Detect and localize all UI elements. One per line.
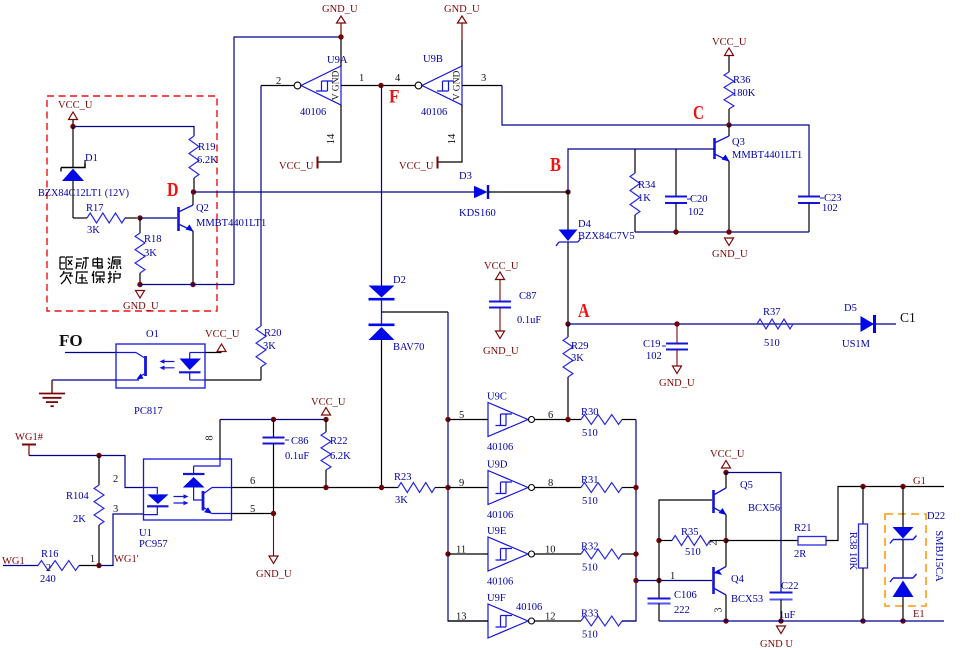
svg-text:6.2K: 6.2K (330, 451, 351, 462)
wire node F down to D2 (381, 86, 383, 286)
svg-text:510: 510 (685, 547, 701, 558)
wire U9B gnd pin (461, 23, 463, 66)
svg-text:3K: 3K (87, 225, 100, 236)
pin label 2 (U1) (113, 474, 118, 485)
label U9F (487, 593, 506, 604)
svg-text:Q2: Q2 (196, 203, 209, 214)
ground GND_U (driver) (760, 626, 793, 650)
wire U9B output to node F (381, 85, 415, 87)
TVS enclosure (D22) (885, 514, 926, 606)
pin label 8 (U9D out) (548, 478, 553, 489)
svg-text:VCC_U: VCC_U (311, 397, 346, 408)
wire U9E input (448, 553, 488, 555)
wire VCC to D1 (72, 127, 74, 168)
label R31 (581, 475, 599, 486)
svg-text:3K: 3K (395, 495, 408, 506)
undervoltage-protect dashed enclosure (47, 96, 217, 311)
svg-text:U1: U1 (139, 528, 152, 539)
value label 2K (73, 514, 86, 525)
wire D3 to node B (488, 191, 568, 193)
pin label 2 (R16) (46, 563, 51, 574)
svg-text:R23: R23 (394, 472, 412, 483)
value label BZX84C7V5 (578, 231, 635, 242)
wire node C to C23 (729, 125, 809, 196)
ground GND_U (Q3) (712, 238, 748, 260)
label R23 (394, 472, 412, 483)
wire U1 pin6 row (232, 487, 399, 489)
label Q2 (196, 203, 209, 214)
label D3 (459, 171, 472, 182)
U1 photodiode (183, 466, 205, 500)
inverter U9B (415, 66, 462, 105)
wire emitter/ground rail (659, 620, 944, 622)
svg-text:R18: R18 (144, 234, 162, 245)
svg-text:40106: 40106 (421, 107, 447, 118)
ground GND_U (U9B) (444, 4, 480, 23)
label D5 (844, 303, 857, 314)
svg-text:0.1uF: 0.1uF (517, 315, 541, 326)
svg-text:9: 9 (459, 478, 464, 489)
value label BAV70 (393, 342, 424, 353)
junction (rail/R23/U9D in) (445, 485, 450, 490)
svg-text:Q4: Q4 (731, 574, 745, 585)
svg-text:0.1uF: 0.1uF (285, 451, 309, 462)
value label 40106 (U9C) (487, 442, 513, 453)
svg-text:O1: O1 (146, 329, 159, 340)
wire U9C output (535, 419, 582, 421)
svg-text:3: 3 (714, 608, 725, 613)
value label 40106 (U9F) (516, 602, 542, 613)
wire U9F input (448, 620, 488, 622)
pin label 6 (U1) (250, 476, 255, 487)
value label 3K (R23) (395, 495, 408, 506)
ground GND_U (C87) (483, 331, 519, 357)
wire output rail (622, 420, 636, 622)
value label 0.1uF (C86) (285, 451, 309, 462)
svg-text:180K: 180K (732, 88, 756, 99)
svg-text:R19: R19 (198, 142, 216, 153)
label R104 (66, 491, 90, 502)
svg-text:U9B: U9B (423, 54, 443, 65)
label R34 (638, 180, 656, 191)
svg-text:510: 510 (764, 338, 780, 349)
value label 1uF (779, 610, 796, 621)
svg-text:A: A (578, 300, 590, 322)
svg-text:R31: R31 (581, 475, 599, 486)
svg-text:8: 8 (205, 435, 216, 440)
svg-text:10: 10 (545, 545, 556, 556)
svg-text:2K: 2K (73, 514, 86, 525)
label Q3 (732, 137, 745, 148)
svg-text:BCX56: BCX56 (748, 503, 780, 514)
label C20 (687, 194, 708, 205)
svg-text:VCC_U: VCC_U (205, 329, 240, 340)
value label 222 (674, 605, 690, 616)
capacitor C87 (489, 302, 511, 332)
svg-text:8: 8 (548, 478, 553, 489)
value label 510 (R31) (582, 496, 598, 507)
svg-text:C22: C22 (781, 581, 799, 592)
svg-text:40106: 40106 (516, 602, 542, 613)
label D1 (85, 153, 98, 164)
svg-text:V GND: V GND (332, 71, 342, 101)
inverter U9D (488, 471, 535, 505)
svg-text:VCC_U: VCC_U (484, 261, 519, 272)
value label 102 (C20) (688, 207, 704, 218)
value label MMBT4401LT1 (Q2) (196, 218, 266, 229)
wire Q5 base riser (659, 500, 712, 598)
svg-text:D3: D3 (459, 171, 472, 182)
wire D2 common tap (382, 299, 449, 420)
zener D1 (61, 160, 85, 181)
svg-text:U9D: U9D (487, 460, 508, 471)
label O1 (146, 329, 159, 340)
junction (D2 anode / pin6) (379, 485, 384, 490)
transistor Q4 (714, 541, 727, 622)
wire WG1' to pin3 (99, 514, 143, 566)
svg-text:VCC_U: VCC_U (710, 449, 745, 460)
svg-text:R36: R36 (733, 75, 751, 86)
svg-text:3: 3 (481, 73, 486, 84)
capacitor C22 (770, 593, 793, 622)
pin label 14 (U9B) (447, 133, 458, 144)
label R36 (733, 75, 751, 86)
svg-text:240: 240 (40, 574, 56, 585)
svg-text:R20: R20 (264, 328, 282, 339)
svg-text:FO: FO (59, 331, 83, 350)
junction (push-pull output) (723, 538, 728, 543)
U1 LED (144, 488, 169, 515)
resistor R36 (724, 72, 734, 125)
svg-text:510: 510 (582, 563, 598, 574)
label R29 (571, 341, 589, 352)
wire U9A out down to R20 (260, 86, 262, 327)
junction (D22 top) (900, 484, 905, 489)
wire VCC to R19 (73, 127, 194, 137)
svg-text:C20: C20 (690, 194, 708, 205)
svg-text:B: B (550, 154, 561, 176)
wire D1 to R17 (72, 181, 74, 218)
svg-text:R22: R22 (330, 436, 348, 447)
svg-text:MMBT4401LT1: MMBT4401LT1 (732, 150, 802, 161)
resistor R31 (581, 483, 636, 493)
svg-text:3K: 3K (144, 248, 157, 259)
svg-text:R32: R32 (581, 542, 599, 553)
U1 pin8 lead (194, 420, 220, 467)
label C23 (820, 193, 842, 204)
pin label 10 (U9E out) (545, 545, 556, 556)
junction (rail/U9C in) (445, 417, 450, 422)
pin label 2 (Q5 emitter) (709, 541, 720, 546)
pin label 1 (R16) (90, 554, 95, 565)
label R17 (86, 203, 104, 214)
junction (C22 bottom) (778, 618, 783, 623)
wire node A row (568, 323, 896, 325)
svg-text:12: 12 (545, 612, 556, 623)
wire U9A input (341, 85, 381, 87)
svg-text:WG1': WG1' (114, 554, 139, 565)
wire emitter rail (140, 284, 234, 286)
label R32 (581, 542, 599, 553)
value label BCX56 (748, 503, 780, 514)
svg-text:40106: 40106 (487, 442, 513, 453)
O1 light arrows (160, 359, 175, 370)
svg-text:3K: 3K (263, 341, 276, 352)
svg-text:VCC_U: VCC_U (58, 100, 93, 111)
wire U9F output (535, 620, 582, 622)
earth ground (FO return) (39, 380, 65, 406)
pin label 5 (U1) (250, 504, 255, 515)
wire U9A output (261, 85, 294, 87)
wire junction to Q2 base (140, 217, 177, 219)
pin label 2 (U9A out) (276, 76, 281, 87)
svg-text:D5: D5 (844, 303, 857, 314)
svg-text:Q5: Q5 (740, 480, 753, 491)
label C86 (285, 436, 309, 447)
svg-text:2R: 2R (794, 549, 806, 560)
resistor R20 (256, 326, 266, 380)
label D22 (927, 511, 945, 522)
wire U9C input (448, 419, 488, 421)
svg-text:14: 14 (447, 133, 458, 144)
caption 驱动电源 (60, 257, 121, 269)
node B (550, 154, 571, 195)
pin label 14 (U9A) (326, 133, 337, 144)
node A (565, 300, 590, 327)
wire up-left riser (234, 37, 341, 285)
resistor R30 (581, 415, 636, 425)
junction (pin5 / C86 bottom) (271, 511, 276, 516)
value label 240 (40, 574, 56, 585)
value label 40106 (U9D) (487, 510, 513, 521)
svg-text:V GND: V GND (453, 71, 463, 101)
svg-text:C86: C86 (291, 436, 309, 447)
label FO (59, 331, 83, 350)
resistor R104 (94, 456, 104, 566)
wire C86 to gnd (273, 514, 275, 557)
svg-text:R29: R29 (571, 341, 589, 352)
power VCC_U (R36) (712, 37, 747, 72)
value label 510 (R35) (685, 547, 701, 558)
svg-text:R17: R17 (86, 203, 104, 214)
label U9C (487, 392, 507, 403)
wire U9B pin14 (438, 105, 462, 162)
resistor R38 (box) (859, 487, 868, 622)
resistor R21 (box) (798, 537, 826, 546)
svg-text:C1: C1 (900, 310, 916, 325)
svg-text:11: 11 (456, 545, 466, 556)
label R21 (794, 523, 812, 534)
svg-text:R38 10K: R38 10K (847, 532, 858, 571)
wire U9D input (448, 487, 488, 489)
pin label 9 (U9D in) (459, 478, 464, 489)
wire node B up to Q3 base (568, 149, 715, 192)
resistor R32 (581, 549, 636, 559)
value label 102 (C23) (822, 203, 838, 214)
U1 light arrows (174, 494, 189, 505)
svg-text:MMBT4401LT1: MMBT4401LT1 (196, 218, 266, 229)
svg-text:VCC_U: VCC_U (399, 161, 434, 172)
svg-text:R30: R30 (581, 407, 599, 418)
junction (D22 bottom) (900, 618, 905, 623)
svg-text:KDS160: KDS160 (459, 208, 496, 219)
opto-coupler O1 box (116, 344, 205, 388)
wire U1 pin5 (232, 513, 274, 515)
port E1 (913, 609, 925, 620)
svg-text:102: 102 (822, 203, 838, 214)
dual diode D2 (top) (369, 286, 395, 300)
wire R21 to G1 row (826, 487, 944, 541)
svg-text:SMBJ15CA: SMBJ15CA (933, 530, 944, 582)
svg-text:GND_U: GND_U (659, 378, 695, 389)
pin label 1 (U9A in) (359, 73, 364, 84)
svg-text:R33: R33 (581, 609, 599, 620)
label C22 (781, 581, 799, 592)
wire D2 anode down (381, 340, 383, 488)
value label SMBJ15CA (933, 530, 944, 582)
svg-text:40106: 40106 (487, 510, 513, 521)
label C106 (674, 590, 697, 601)
value label 40106 (U9A) (300, 107, 326, 118)
value label US1M (842, 339, 871, 350)
wire VCC row (pin8/C86/R22) (220, 419, 326, 421)
junction (Q4 collector rail) (723, 618, 728, 623)
power VCC_U (R22) (311, 397, 346, 422)
pin label 4 (U9B out) (395, 73, 401, 84)
wire node D to D3 (194, 191, 475, 193)
wire output to R21 (726, 540, 798, 542)
TVS D22 lower zener (890, 574, 917, 597)
svg-text:6.2K: 6.2K (197, 155, 218, 166)
port WG1 (2, 556, 25, 567)
junction (VCC_U / D1 / R19 wire) (70, 124, 75, 129)
svg-text:C106: C106 (674, 590, 697, 601)
power VCC_U (U9A pin14) (279, 157, 318, 173)
label R30 (581, 407, 599, 418)
value label 40106 (U9B) (421, 107, 447, 118)
wire base tap row (636, 580, 712, 582)
value label BZX84C12LT1 (12V) (38, 188, 129, 199)
svg-text:R34: R34 (638, 180, 656, 191)
svg-text:GND U: GND U (760, 639, 793, 650)
wire D22 top lead (902, 487, 904, 528)
wire WG1 to R16 (3, 565, 38, 567)
svg-text:40106: 40106 (487, 577, 513, 588)
svg-text:D22: D22 (927, 511, 945, 522)
transistor Q2 (179, 192, 194, 285)
svg-text:1: 1 (670, 571, 675, 582)
junction (rail/R31) (633, 485, 638, 490)
svg-text:GND_U: GND_U (256, 569, 292, 580)
junction (C20 bottom) (673, 229, 678, 234)
label C87 (519, 291, 537, 302)
svg-text:BAV70: BAV70 (393, 342, 424, 353)
svg-text:GND_U: GND_U (322, 4, 358, 15)
wire U9E output (535, 553, 582, 555)
value label 3K (R18) (144, 248, 157, 259)
junction (R22 bottom) (323, 485, 328, 490)
resistor R17 (73, 213, 137, 223)
capacitor C106 (648, 599, 671, 622)
svg-text:C: C (693, 102, 704, 124)
label D4 (578, 219, 592, 230)
value label 1K (638, 193, 651, 204)
svg-text:222: 222 (674, 605, 690, 616)
value label 2R (794, 549, 806, 560)
label R38 10K (847, 532, 858, 571)
svg-text:1: 1 (90, 554, 95, 565)
svg-text:VCC_U: VCC_U (712, 37, 747, 48)
resistor R16 (38, 561, 99, 571)
resistor R23 (398, 483, 448, 493)
value label 3K (R20) (263, 341, 276, 352)
svg-text:U9A: U9A (327, 55, 348, 66)
pin label 11 (U9E in) (456, 545, 466, 556)
power VCC_U (U9B pin14) (399, 157, 438, 173)
junction (R18 bottom / GND rail) (137, 282, 142, 287)
svg-text:4: 4 (395, 73, 401, 84)
wire U9B input to node C (462, 86, 729, 126)
wire U9A gnd pin (340, 23, 342, 66)
power VCC_U (D1 top) (58, 100, 93, 126)
O1 phototransistor (116, 353, 146, 381)
pin label 13 (U9F in) (456, 612, 467, 623)
TVS D22 upper zener (890, 527, 917, 544)
pin label 6 (U9C out) (548, 410, 553, 421)
junction (R38 top) (860, 484, 865, 489)
junction (R35 left) (656, 538, 661, 543)
junction (Q2 emitter / GND rail) (190, 282, 195, 287)
pin label 12 (U9F out) (545, 612, 556, 623)
label R18 (144, 234, 162, 245)
svg-text:6: 6 (548, 410, 553, 421)
svg-text:U9C: U9C (487, 392, 507, 403)
value label KDS160 (459, 208, 496, 219)
resistor R33 (581, 616, 636, 626)
junction (gnd wire / riser) (338, 34, 343, 39)
svg-text:510: 510 (582, 496, 598, 507)
label U9D (487, 460, 508, 471)
diode D3 (474, 185, 488, 199)
resistor R22 (321, 420, 331, 488)
port label WG1' (114, 554, 139, 565)
diode D5 (861, 315, 875, 333)
svg-text:VCC_U: VCC_U (279, 161, 314, 172)
svg-text:BZX84C12LT1 (12V): BZX84C12LT1 (12V) (38, 188, 129, 199)
ground GND_U (C19) (659, 366, 695, 389)
resistor R29 (563, 324, 573, 420)
wire Q3 gnd rail (635, 231, 809, 233)
svg-text:C19: C19 (643, 339, 661, 350)
svg-text:R37: R37 (763, 307, 781, 318)
ground GND_U (protect block) (123, 291, 159, 313)
wire O1 emitter to earth (52, 379, 116, 381)
label R22 (330, 436, 348, 447)
port G1 (913, 476, 926, 487)
svg-text:U9E: U9E (487, 526, 506, 537)
transistor Q3 (715, 125, 730, 232)
node F (378, 83, 399, 108)
label R37 (763, 307, 781, 318)
junction (C86 top) (271, 417, 276, 422)
value label 3K (R29) (571, 353, 584, 364)
svg-text:US1M: US1M (842, 339, 871, 350)
svg-text:F: F (389, 87, 400, 108)
capacitor C86 (263, 420, 285, 514)
label Q5 (740, 480, 753, 491)
svg-text:D4: D4 (578, 219, 592, 230)
svg-text:WG1#: WG1# (15, 432, 44, 443)
